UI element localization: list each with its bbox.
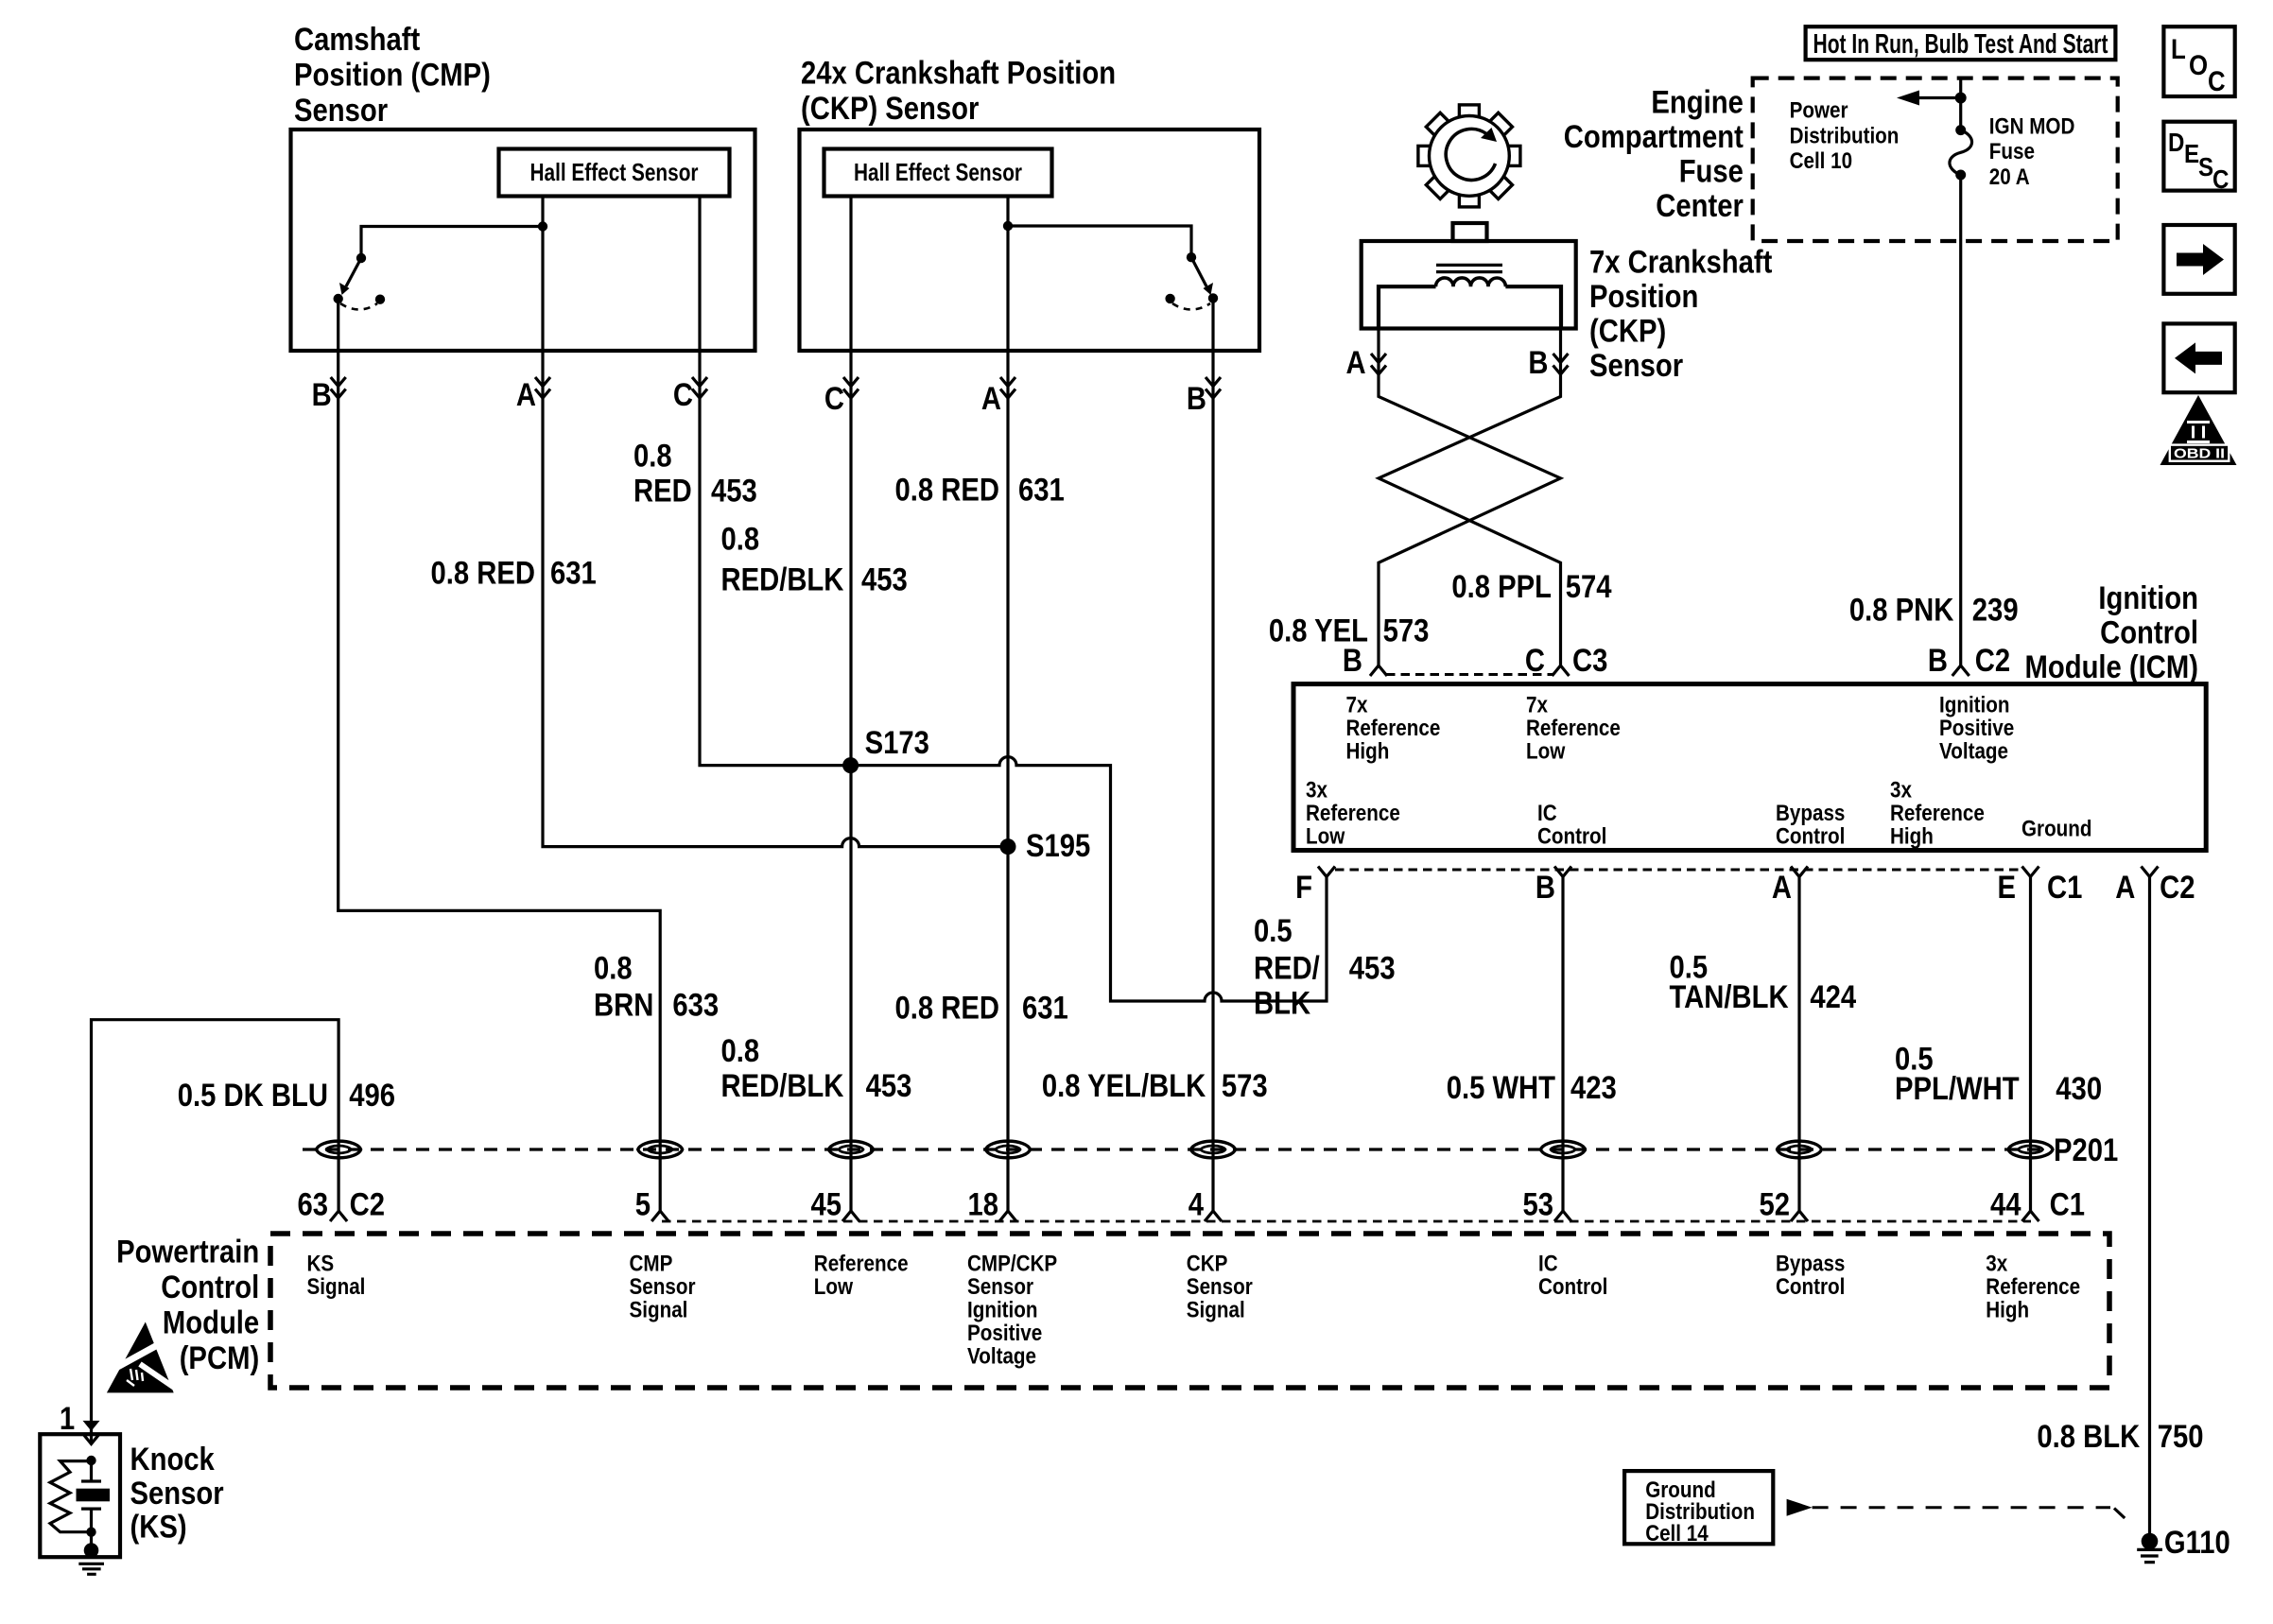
svg-text:24x Crankshaft Position: 24x Crankshaft Position [801, 56, 1116, 92]
connector P201 pass-through pin 53 [1541, 1141, 1586, 1158]
svg-text:3x: 3x [1890, 778, 1913, 803]
ESD warning icon [107, 1322, 176, 1393]
svg-text:A: A [1346, 345, 1366, 381]
svg-text:453: 453 [866, 1068, 912, 1104]
svg-text:S173: S173 [865, 725, 929, 761]
svg-text:CMP: CMP [630, 1252, 673, 1277]
svg-text:RED/BLK: RED/BLK [721, 1068, 844, 1104]
wire 24x pin A to PCM pin 18 [1006, 226, 1009, 1211]
svg-text:0.8 RED: 0.8 RED [895, 473, 1000, 509]
svg-text:Distribution: Distribution [1790, 123, 1900, 148]
node knock top junction dot [86, 1456, 95, 1465]
svg-text:7x Crankshaft: 7x Crankshaft [1589, 245, 1772, 281]
svg-text:0.8: 0.8 [633, 439, 672, 475]
ICM pin A C2 connector [2142, 867, 2159, 877]
svg-text:E: E [1998, 870, 2017, 906]
ICM box [1293, 684, 2206, 851]
wire fuse to ICM pin B C2 [1959, 175, 1962, 665]
svg-text:573: 573 [1222, 1068, 1268, 1104]
svg-text:0.8: 0.8 [721, 522, 760, 558]
svg-text:Bypass: Bypass [1776, 801, 1845, 826]
svg-text:0.5 DK BLU: 0.5 DK BLU [178, 1078, 328, 1114]
ICM pin B connector [1554, 867, 1571, 877]
switch SW1 pivot dot [356, 253, 366, 263]
switch SW1 alternate contact dot [375, 295, 385, 304]
svg-text:Ignition: Ignition [967, 1298, 1038, 1323]
LOC icon box [2163, 26, 2234, 96]
svg-text:631: 631 [1018, 473, 1065, 509]
svg-text:573: 573 [1383, 613, 1430, 649]
svg-text:C1: C1 [2047, 870, 2082, 906]
svg-text:OBD II: OBD II [2174, 446, 2225, 462]
svg-text:CKP: CKP [1187, 1252, 1228, 1277]
svg-text:IGN MOD: IGN MOD [1989, 113, 2075, 139]
pin C CMP arrow [692, 377, 707, 398]
svg-text:Fuse: Fuse [1679, 153, 1744, 189]
PCM connector dashed line [662, 1220, 2031, 1223]
ICM bottom connector dashed line [1335, 869, 2023, 872]
svg-text:RED/BLK: RED/BLK [721, 562, 844, 598]
pin B 24x arrow [1206, 377, 1221, 398]
svg-text:Sensor: Sensor [130, 1476, 224, 1512]
svg-text:Center: Center [1656, 188, 1744, 224]
switch SW2 contact dot [1208, 293, 1218, 302]
svg-text:Signal: Signal [307, 1274, 366, 1300]
svg-text:Signal: Signal [1187, 1298, 1245, 1323]
svg-text:Reference: Reference [1890, 801, 1985, 826]
svg-text:Control: Control [1776, 824, 1845, 850]
fuse F1 IGN MOD bottom dot [1955, 170, 1966, 181]
svg-text:BRN: BRN [594, 988, 653, 1024]
wire CMP pin B to PCM pin 5 column [338, 299, 661, 1211]
7x CKP core lines [1436, 265, 1502, 271]
back arrow icon box [2163, 323, 2234, 392]
ICM pin C C3 connector [1553, 665, 1570, 676]
svg-text:63: 63 [298, 1187, 329, 1223]
pin A 7x arrow [1371, 354, 1386, 374]
next arrow icon box [2163, 225, 2234, 294]
svg-text:Reference: Reference [1346, 716, 1441, 741]
svg-text:C: C [2212, 164, 2229, 194]
svg-text:C2: C2 [350, 1187, 385, 1223]
svg-text:Hall Effect Sensor: Hall Effect Sensor [530, 158, 699, 186]
wire CMP pin C to S173 to ICM pin F [700, 197, 1327, 1002]
ground G110 dot [2142, 1533, 2159, 1550]
svg-text:0.8 BLK: 0.8 BLK [2037, 1419, 2140, 1455]
pin A CMP arrow [535, 377, 550, 398]
svg-text:Voltage: Voltage [1939, 739, 2008, 765]
svg-text:B: B [1536, 870, 1555, 906]
svg-text:496: 496 [349, 1078, 395, 1114]
switch SW1 contact dot [334, 294, 343, 303]
wire knock sensor to PCM pin 63 [92, 1020, 339, 1444]
svg-text:C: C [2208, 66, 2226, 97]
svg-text:Position: Position [1589, 279, 1698, 315]
resistor R1 knock [50, 1461, 92, 1532]
svg-text:18: 18 [968, 1187, 999, 1223]
svg-text:B: B [1343, 643, 1362, 679]
node junction dot CMP switch feed [538, 221, 547, 231]
ground distribution box [1624, 1471, 1773, 1544]
svg-text:Reference: Reference [814, 1252, 909, 1277]
svg-text:C: C [1525, 643, 1545, 679]
switch SW1 travel dashed arc [340, 303, 377, 310]
svg-text:Sensor: Sensor [294, 93, 388, 129]
svg-text:(KS): (KS) [130, 1510, 187, 1546]
svg-text:0.8: 0.8 [594, 951, 633, 987]
svg-text:Reference: Reference [1986, 1274, 2080, 1300]
7x CKP sensor box [1362, 241, 1576, 329]
svg-text:A: A [1772, 870, 1792, 906]
ICM pin E C1 connector [2022, 867, 2039, 877]
svg-text:E: E [2184, 139, 2199, 168]
wire hot feed into fuse [1959, 78, 1962, 130]
svg-text:453: 453 [711, 474, 757, 510]
svg-text:0.8 YEL/BLK: 0.8 YEL/BLK [1042, 1068, 1206, 1104]
PCM dashed box [270, 1234, 2109, 1388]
fuse F1 IGN MOD top dot [1955, 125, 1966, 135]
pin B CMP arrow [331, 377, 346, 398]
knock sensor pin 1 arrow [83, 1421, 100, 1431]
hall effect sensor U2 (24x CKP) box [824, 149, 1052, 197]
wire CMP switch feed [361, 227, 543, 259]
svg-text:0.8: 0.8 [721, 1033, 760, 1069]
wire 7x pin B twisted to ICM pin C C3 [1379, 328, 1561, 665]
wire ICM pin A C2 to G110 [2148, 877, 2151, 1542]
svg-text:Ignition: Ignition [1939, 693, 2010, 718]
svg-text:0.8 RED: 0.8 RED [431, 556, 536, 592]
svg-text:750: 750 [2158, 1419, 2204, 1455]
svg-text:Low: Low [1526, 739, 1566, 765]
svg-text:Low: Low [814, 1274, 854, 1300]
svg-text:Knock: Knock [130, 1442, 215, 1477]
svg-text:0.8 RED: 0.8 RED [895, 991, 1000, 1027]
svg-text:S195: S195 [1026, 828, 1090, 864]
svg-text:High: High [1986, 1298, 2029, 1323]
svg-text:574: 574 [1566, 569, 1612, 605]
fuse F1 IGN MOD element [1950, 130, 1972, 175]
svg-text:Engine: Engine [1651, 84, 1744, 120]
ICM connector C3 dashed line [1386, 673, 1553, 676]
svg-text:631: 631 [550, 556, 597, 592]
svg-text:Ignition: Ignition [2098, 580, 2198, 616]
hot in run box [1806, 26, 2116, 60]
svg-text:Cell 10: Cell 10 [1790, 148, 1853, 174]
svg-text:Hot In Run, Bulb Test And Star: Hot In Run, Bulb Test And Start [1813, 29, 2108, 60]
node arrow junction dot [1955, 93, 1967, 104]
svg-text:A: A [981, 381, 1001, 417]
ICM pin F connector [1318, 867, 1335, 877]
svg-text:Module (ICM): Module (ICM) [2025, 649, 2199, 685]
svg-text:0.5 WHT: 0.5 WHT [1447, 1070, 1555, 1106]
svg-text:RED: RED [633, 474, 692, 510]
7x CKP coil frame [1379, 286, 1561, 328]
svg-text:C2: C2 [2160, 870, 2195, 906]
svg-text:Sensor: Sensor [1589, 348, 1683, 384]
wire knock to ground [90, 1532, 93, 1550]
svg-text:Reference: Reference [1526, 716, 1621, 741]
svg-text:53: 53 [1523, 1187, 1554, 1223]
svg-text:B: B [1187, 381, 1206, 417]
P201 dashed line [303, 1148, 2042, 1150]
svg-text:C1: C1 [2050, 1187, 2085, 1223]
switch SW2 travel dashed arc [1172, 303, 1210, 310]
svg-text:Low: Low [1306, 824, 1345, 850]
svg-text:424: 424 [1810, 979, 1856, 1015]
ICM pin B C2 connector [1952, 665, 1969, 676]
svg-text:0.8 PPL: 0.8 PPL [1451, 569, 1552, 605]
svg-text:Powertrain: Powertrain [116, 1235, 259, 1270]
connector P201 pass-through pin 52 [1778, 1141, 1822, 1158]
svg-text:IC: IC [1537, 801, 1557, 826]
svg-text:Signal: Signal [630, 1298, 688, 1323]
svg-text:S: S [2198, 152, 2213, 181]
fuse center dashed box [1753, 78, 2118, 241]
svg-text:Control: Control [161, 1270, 259, 1305]
svg-text:P201: P201 [2054, 1132, 2118, 1168]
svg-text:Power: Power [1790, 98, 1848, 124]
svg-text:L: L [2171, 34, 2186, 65]
svg-text:F: F [1295, 870, 1312, 906]
DESC icon box [2163, 122, 2234, 191]
connector P201 pass-through pin 4 [1191, 1141, 1236, 1158]
svg-text:239: 239 [1972, 593, 2019, 629]
svg-text:C3: C3 [1572, 643, 1607, 679]
connector P201 pass-through pin 18 [986, 1141, 1031, 1158]
svg-text:Sensor: Sensor [630, 1274, 696, 1300]
node S173 dot [842, 757, 859, 773]
connector P201 pass-through pin 63 [317, 1141, 361, 1158]
svg-text:PPL/WHT: PPL/WHT [1895, 1071, 2020, 1107]
svg-text:Position (CMP): Position (CMP) [294, 57, 491, 93]
wire 7x pin A twisted to ICM pin B C3 [1379, 328, 1561, 665]
wire 24x switch feed [1008, 226, 1191, 257]
ground distribution dashed wire [1813, 1506, 2110, 1509]
svg-text:Module: Module [163, 1305, 259, 1341]
svg-text:453: 453 [861, 562, 908, 598]
svg-text:3x: 3x [1986, 1252, 2008, 1277]
svg-text:BLK: BLK [1254, 986, 1310, 1022]
node knock bottom junction dot [86, 1528, 95, 1537]
svg-text:D: D [2168, 128, 2184, 157]
svg-text:C: C [673, 377, 693, 413]
svg-text:1: 1 [60, 1401, 75, 1437]
svg-text:45: 45 [811, 1187, 842, 1223]
capacitor C1 knock piezo [81, 1460, 101, 1481]
7x CKP sensor top tab [1453, 223, 1487, 241]
OBD II triangle icon [2160, 395, 2237, 465]
wire CMP pin A to S195 [543, 227, 1008, 847]
ground distribution arrow [1787, 1499, 1813, 1516]
wire ICM pin B to PCM pin 53 [1561, 877, 1564, 1212]
knock ground dot [84, 1543, 99, 1558]
wire 24x pin C to PCM pin 45 [849, 197, 852, 1212]
svg-text:RED/: RED/ [1254, 951, 1320, 987]
svg-text:G110: G110 [2164, 1525, 2230, 1561]
svg-text:Control: Control [1776, 1274, 1845, 1300]
switch SW2 alternate contact dot [1165, 294, 1174, 303]
svg-text:CMP/CKP: CMP/CKP [967, 1252, 1057, 1277]
svg-text:631: 631 [1022, 991, 1068, 1027]
svg-text:Voltage: Voltage [967, 1344, 1036, 1370]
svg-text:O: O [2189, 50, 2208, 81]
connector P201 pass-through pin 44 [2008, 1141, 2053, 1158]
svg-text:Bypass: Bypass [1776, 1252, 1845, 1277]
svg-text:633: 633 [672, 988, 719, 1024]
knock sensor box [40, 1434, 120, 1557]
svg-text:423: 423 [1570, 1070, 1617, 1106]
svg-text:High: High [1890, 824, 1934, 850]
svg-text:Sensor: Sensor [1187, 1274, 1253, 1300]
svg-text:(PCM): (PCM) [180, 1340, 260, 1376]
svg-text:44: 44 [1990, 1187, 2021, 1223]
svg-text:KS: KS [307, 1252, 335, 1277]
wire ICM pin A to PCM pin 52 [1797, 877, 1800, 1212]
svg-text:C2: C2 [1975, 643, 2010, 679]
svg-text:High: High [1346, 739, 1390, 765]
svg-text:430: 430 [2056, 1071, 2102, 1107]
hall effect sensor U1 (CMP) box [499, 149, 730, 197]
wire ICM pin E to PCM pin 44 [2029, 877, 2032, 1212]
svg-text:B: B [1528, 345, 1548, 381]
wire 24x pin B to PCM pin 4 [1211, 298, 1214, 1211]
switch SW2 blade arrow [1191, 257, 1206, 286]
svg-text:Positive: Positive [967, 1321, 1042, 1346]
svg-text:Cell 14: Cell 14 [1645, 1521, 1709, 1546]
node S195 dot [1000, 838, 1016, 855]
svg-text:0.5: 0.5 [1254, 913, 1293, 949]
pin C 24x arrow [843, 377, 859, 398]
wire hall U2 output down [1006, 197, 1009, 227]
ground symbol G110 [2137, 1549, 2162, 1562]
svg-text:A: A [516, 377, 536, 413]
node junction dot 24x switch feed [1003, 221, 1013, 231]
svg-text:Hall Effect Sensor: Hall Effect Sensor [854, 158, 1022, 186]
svg-text:B: B [1928, 643, 1948, 679]
pin B 7x arrow [1553, 354, 1569, 374]
svg-text:IC: IC [1538, 1252, 1558, 1277]
ground symbol knock sensor [78, 1564, 104, 1574]
switch SW1 blade arrow [346, 258, 361, 286]
svg-text:Control: Control [2100, 615, 2198, 651]
connector P201 pass-through pin 5 [638, 1141, 683, 1158]
svg-text:Compartment: Compartment [1564, 119, 1744, 155]
svg-text:(CKP) Sensor: (CKP) Sensor [801, 91, 979, 127]
svg-text:TAN/BLK: TAN/BLK [1670, 979, 1789, 1015]
pin A 24x arrow [1000, 377, 1015, 398]
knock sensor pin 1 connector [83, 1434, 100, 1444]
svg-text:Control: Control [1537, 824, 1606, 850]
svg-text:5: 5 [635, 1187, 651, 1223]
svg-text:(CKP): (CKP) [1589, 314, 1666, 350]
svg-text:Control: Control [1538, 1274, 1607, 1300]
switch SW2 pivot dot [1187, 252, 1196, 262]
ICM pin B C3 connector [1370, 665, 1387, 676]
svg-text:Ground: Ground [2021, 817, 2092, 842]
svg-text:B: B [312, 377, 332, 413]
gear icon (reluctor wheel) [1418, 105, 1520, 207]
svg-text:4: 4 [1189, 1187, 1204, 1223]
svg-text:Fuse: Fuse [1989, 139, 2035, 164]
wire hall U1 output to junction [541, 197, 544, 227]
ICM pin A connector [1791, 867, 1808, 877]
svg-text:A: A [2115, 870, 2135, 906]
svg-text:C: C [824, 381, 844, 417]
svg-text:20 A: 20 A [1989, 164, 2030, 190]
svg-text:Sensor: Sensor [967, 1274, 1033, 1300]
svg-text:453: 453 [1349, 951, 1396, 987]
svg-text:7x: 7x [1346, 693, 1369, 718]
svg-text:Reference: Reference [1306, 801, 1400, 826]
svg-text:0.8 PNK: 0.8 PNK [1849, 593, 1954, 629]
power distribution arrow [1917, 96, 1961, 99]
svg-text:7x: 7x [1526, 693, 1549, 718]
connector P201 pass-through pin 45 [829, 1141, 874, 1158]
svg-text:Camshaft: Camshaft [294, 22, 420, 58]
svg-text:3x: 3x [1306, 778, 1328, 803]
CMP sensor box [291, 130, 755, 351]
7x CKP coil L1 [1436, 278, 1506, 286]
svg-text:Positive: Positive [1939, 716, 2014, 741]
24x CKP sensor box [800, 130, 1260, 351]
svg-text:52: 52 [1760, 1187, 1791, 1223]
